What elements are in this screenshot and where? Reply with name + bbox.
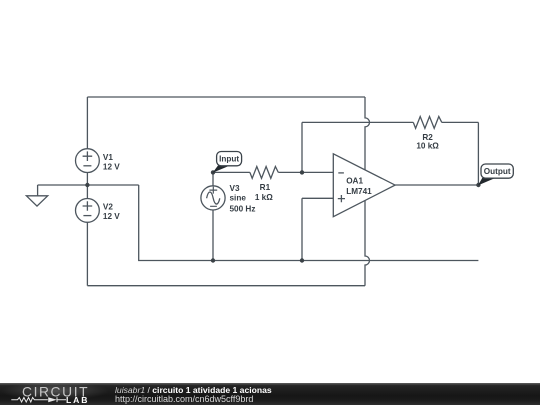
wire ground rail <box>38 184 139 186</box>
ground <box>26 185 47 206</box>
svg-text:R2: R2 <box>422 133 433 142</box>
footer logo glow <box>0 383 160 405</box>
wire V1 bottom stub <box>86 172 88 185</box>
svg-text:500 Hz: 500 Hz <box>230 204 256 213</box>
svg-text:12 V: 12 V <box>103 162 120 171</box>
node V3 ground <box>211 258 215 262</box>
wire right vertical with crossover hops <box>365 97 370 286</box>
svg-text:LAB: LAB <box>66 395 89 405</box>
wire V3 top stub <box>212 172 214 186</box>
wire feedback down to output <box>477 122 479 185</box>
label R1 value <box>255 183 273 202</box>
wire feedback up and across <box>302 122 478 172</box>
footer caption text <box>115 386 272 404</box>
wire top rail <box>87 96 365 98</box>
svg-text:12 V: 12 V <box>103 212 120 221</box>
wire bottom rail <box>87 285 365 287</box>
node input <box>211 170 215 174</box>
voltage source V3 sine <box>201 186 225 210</box>
voltage source V1 <box>76 149 100 173</box>
svg-text:V1: V1 <box>103 153 113 162</box>
node dots <box>85 170 480 262</box>
wire inverting input <box>302 171 333 173</box>
footer bar <box>0 383 540 405</box>
svg-text:LM741: LM741 <box>346 187 372 196</box>
voltage source V2 <box>76 199 100 223</box>
wire V3 bottom stub <box>212 209 214 260</box>
svg-text:Output: Output <box>484 167 511 176</box>
label V3 value <box>230 184 256 214</box>
wire op-amp output <box>395 184 478 186</box>
label OA1 <box>346 177 372 196</box>
flag Input <box>213 152 242 173</box>
logo CIRCUIT LAB <box>0 383 110 405</box>
node output <box>476 183 480 187</box>
wire non-inverting input <box>302 198 333 260</box>
wire V1 top stub <box>86 97 88 149</box>
svg-text:Input: Input <box>219 155 239 164</box>
svg-text:V2: V2 <box>103 203 113 212</box>
svg-text:10 kΩ: 10 kΩ <box>416 142 439 151</box>
label V1 value <box>103 153 120 172</box>
wire mid rail down and right <box>139 185 479 261</box>
wire V2 bottom stub <box>86 222 88 286</box>
label R2 value <box>416 133 439 151</box>
svg-text:sine: sine <box>230 194 247 203</box>
wire R1 to inverting node <box>278 171 302 173</box>
resistor R1 body <box>250 167 278 179</box>
svg-text:R1: R1 <box>260 183 271 192</box>
node non-inverting ground <box>300 258 304 262</box>
label V2 value <box>103 203 120 222</box>
svg-text:OA1: OA1 <box>346 177 363 186</box>
node inverting <box>300 170 304 174</box>
svg-text:V3: V3 <box>230 184 240 193</box>
resistor R2 body <box>413 117 442 129</box>
node V1-V2 junction <box>85 183 89 187</box>
wire V2 top stub <box>86 185 88 199</box>
flag Output <box>478 164 513 185</box>
wire input node to R1 <box>213 171 250 173</box>
svg-text:1 kΩ: 1 kΩ <box>255 193 273 202</box>
op-amp OA1 <box>333 154 395 217</box>
